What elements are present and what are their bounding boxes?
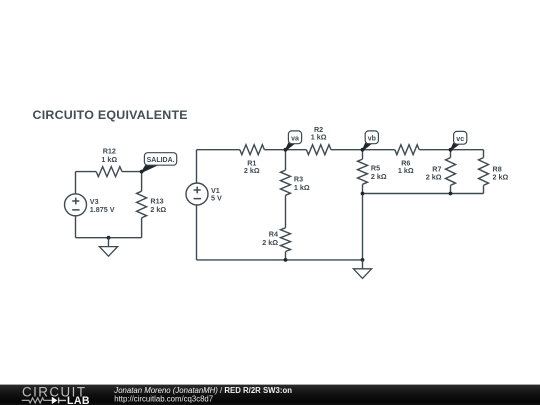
node R7 bottom junction bbox=[449, 192, 453, 196]
svg-text:vc: vc bbox=[456, 136, 464, 143]
svg-text:vb: vb bbox=[368, 136, 376, 143]
svg-text:LAB: LAB bbox=[67, 395, 90, 405]
svg-text:1 kΩ: 1 kΩ bbox=[311, 132, 327, 141]
resistor R13 bbox=[137, 172, 167, 238]
flag va bbox=[284, 131, 301, 151]
wire V3 top lead bbox=[75, 172, 77, 194]
resistor R5 bbox=[358, 150, 387, 194]
node SALIDA junction bbox=[140, 170, 144, 174]
svg-text:1 kΩ: 1 kΩ bbox=[294, 183, 310, 192]
wire R5bottom-ground bbox=[362, 194, 364, 260]
svg-text:SALIDA.: SALIDA. bbox=[147, 157, 175, 164]
wire sub-bottom R5-R7-R8 bbox=[363, 193, 484, 195]
wire va-R2 bbox=[286, 149, 307, 151]
flag vc bbox=[449, 131, 466, 151]
node vb bbox=[361, 148, 365, 152]
svg-text:CIRCUITO EQUIVALENTE: CIRCUITO EQUIVALENTE bbox=[33, 108, 188, 122]
resistor R6 bbox=[395, 145, 419, 175]
flag SALIDA bbox=[140, 153, 176, 173]
wire vb-R6 bbox=[363, 149, 395, 151]
resistor R3 bbox=[281, 150, 310, 196]
svg-text:va: va bbox=[291, 136, 299, 143]
node R5 bottom junction bbox=[361, 192, 365, 196]
svg-text:http://circuitlab.com/cq3c8d7: http://circuitlab.com/cq3c8d7 bbox=[114, 394, 213, 403]
resistor R4 bbox=[262, 228, 290, 260]
node R4 bottom junction bbox=[284, 258, 288, 262]
logo resistor-diode symbol bbox=[22, 397, 66, 404]
wire R2-vb bbox=[331, 149, 363, 151]
wire left-circuit bottom bbox=[76, 237, 142, 239]
voltage source V3 bbox=[65, 194, 115, 216]
resistor R1 bbox=[240, 145, 265, 176]
wire R6-vc bbox=[419, 149, 450, 151]
wire V1 top lead bbox=[196, 150, 198, 184]
wire vc-R8top bbox=[451, 149, 484, 151]
svg-text:2 kΩ: 2 kΩ bbox=[150, 205, 166, 214]
svg-text:1 kΩ: 1 kΩ bbox=[398, 166, 414, 175]
footer bar bbox=[0, 385, 540, 405]
flag vb bbox=[361, 131, 378, 151]
wire V3 bottom lead bbox=[75, 216, 77, 238]
wire R3-R4 bbox=[285, 195, 287, 228]
svg-text:2 kΩ: 2 kΩ bbox=[371, 172, 387, 181]
svg-text:5 V: 5 V bbox=[211, 194, 222, 203]
voltage source V1 bbox=[186, 183, 222, 205]
wire V1 bottom lead bbox=[196, 205, 198, 260]
ground right-circuit bbox=[353, 258, 371, 278]
wire top segment V1-R1 bbox=[197, 149, 240, 151]
svg-text:2 kΩ: 2 kΩ bbox=[244, 166, 260, 175]
wire main bottom bbox=[197, 259, 363, 261]
wire left-circuit top bbox=[76, 171, 142, 173]
wire R1-va bbox=[264, 149, 285, 151]
node va bbox=[284, 148, 288, 152]
node vc bbox=[449, 148, 453, 152]
svg-text:2 kΩ: 2 kΩ bbox=[426, 173, 442, 182]
svg-text:1 kΩ: 1 kΩ bbox=[101, 155, 117, 164]
resistor R2 bbox=[306, 125, 331, 155]
svg-text:2 kΩ: 2 kΩ bbox=[262, 238, 278, 247]
resistor R7 bbox=[426, 150, 456, 194]
svg-text:1.875 V: 1.875 V bbox=[90, 205, 115, 214]
resistor R8 bbox=[479, 150, 509, 194]
resistor R12 bbox=[96, 147, 122, 177]
ground left-circuit bbox=[99, 236, 117, 256]
svg-text:2 kΩ: 2 kΩ bbox=[493, 173, 509, 182]
